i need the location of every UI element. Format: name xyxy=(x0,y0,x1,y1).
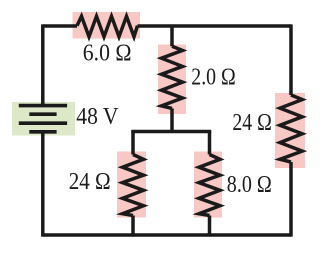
resistor 24 ohm left highlight xyxy=(117,152,146,218)
wire left upper xyxy=(41,24,45,105)
svg-text:24 Ω: 24 Ω xyxy=(232,110,272,136)
svg-text:6.0 Ω: 6.0 Ω xyxy=(83,40,132,66)
svg-text:8.0 Ω: 8.0 Ω xyxy=(227,172,272,198)
battery plate short bottom xyxy=(29,130,56,134)
resistor 6.0 ohm zigzag xyxy=(77,16,138,36)
resistor 8.0 ohm zigzag xyxy=(199,155,220,216)
svg-text:48 V: 48 V xyxy=(76,104,119,130)
battery plate long top xyxy=(19,104,67,108)
resistor 6.0 ohm highlight xyxy=(73,12,141,39)
svg-text:24 Ω: 24 Ω xyxy=(69,169,111,195)
svg-text:2.0 Ω: 2.0 Ω xyxy=(191,64,236,90)
wire T horizontal xyxy=(133,132,210,134)
wire left sub-branch lower xyxy=(131,216,135,237)
wire left lower xyxy=(41,132,45,237)
wire left sub-branch upper xyxy=(131,132,135,155)
resistor 2.0 ohm highlight xyxy=(158,45,186,115)
resistor 24 ohm right highlight xyxy=(275,93,305,168)
wire right upper xyxy=(289,24,293,95)
wire middle branch lower xyxy=(170,108,174,131)
battery plate short upper xyxy=(29,112,56,116)
wire right sub-branch lower xyxy=(208,216,212,237)
wire bottom xyxy=(43,233,291,237)
battery plate long lower xyxy=(19,121,67,125)
resistor 24 ohm right zigzag xyxy=(280,95,302,162)
battery 48 V highlight xyxy=(12,102,75,136)
wire right sub-branch upper xyxy=(208,132,212,155)
wire middle branch upper xyxy=(170,26,174,46)
resistor 2.0 ohm zigzag xyxy=(162,46,183,108)
wire right lower xyxy=(289,162,293,237)
resistor 24 ohm left zigzag xyxy=(123,155,144,216)
wire top left segment xyxy=(43,24,77,28)
wire top right segment xyxy=(138,24,292,28)
resistor 8.0 ohm highlight xyxy=(194,152,222,218)
